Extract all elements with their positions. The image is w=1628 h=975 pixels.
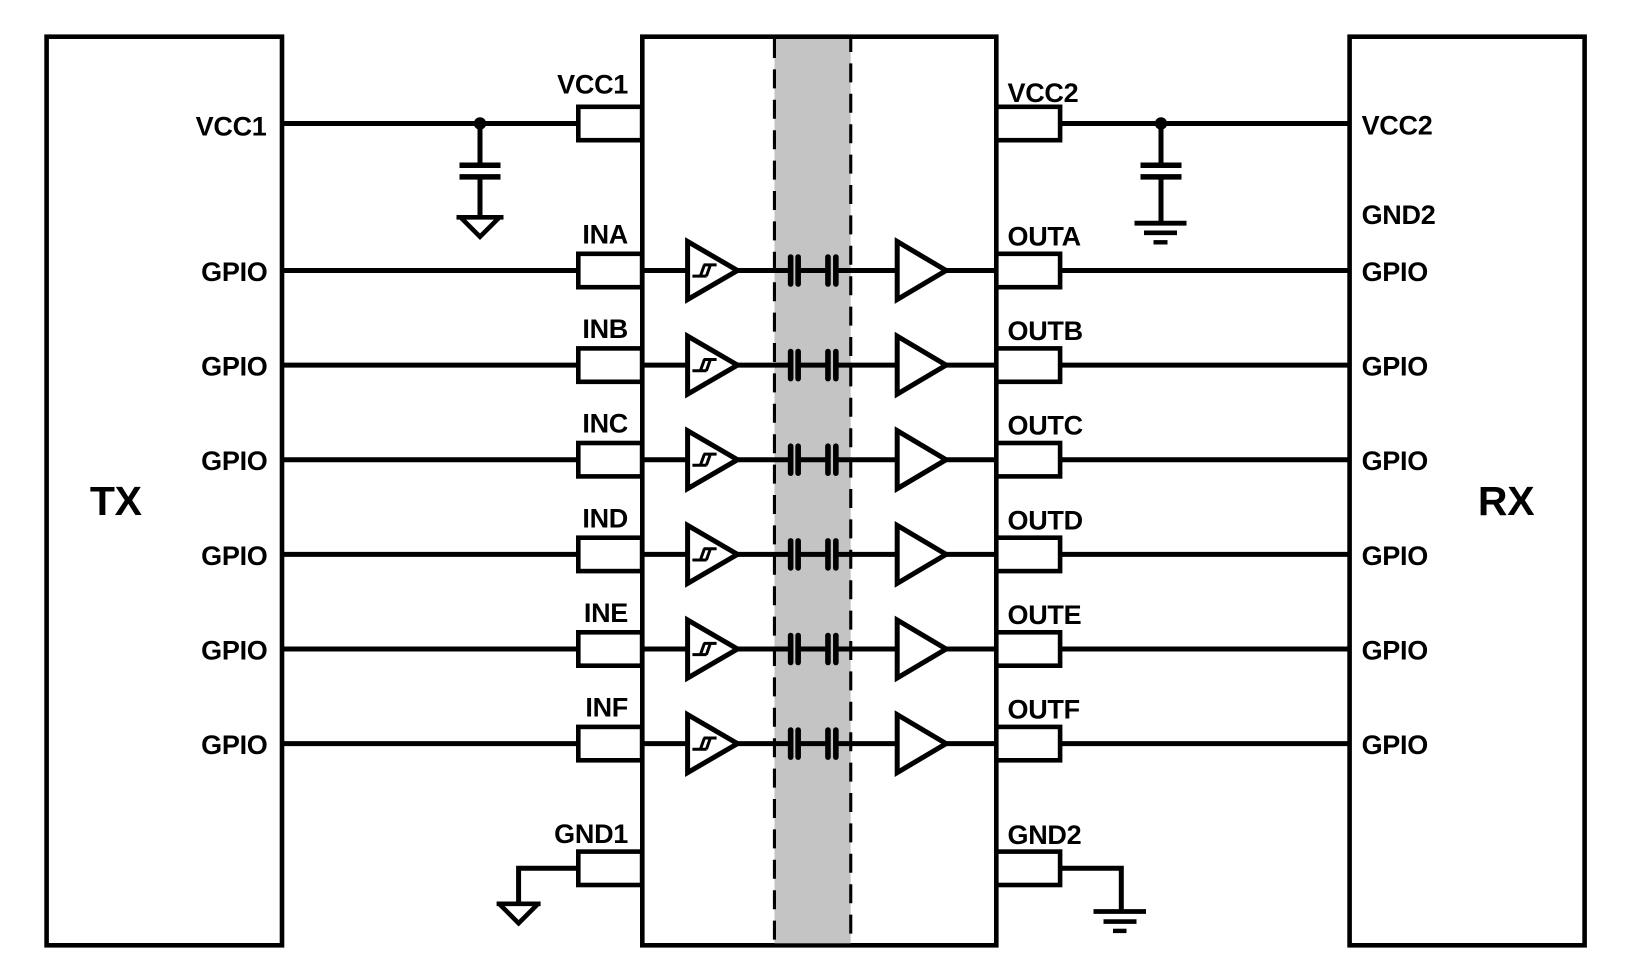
svg-text:OUTD: OUTD: [1008, 505, 1083, 535]
svg-text:OUTA: OUTA: [1008, 222, 1081, 252]
svg-text:GPIO: GPIO: [201, 541, 267, 571]
svg-text:INB: INB: [582, 314, 628, 344]
svg-text:GPIO: GPIO: [1362, 541, 1428, 571]
svg-text:VCC2: VCC2: [1008, 78, 1079, 108]
svg-text:GPIO: GPIO: [201, 446, 267, 476]
svg-text:IND: IND: [582, 503, 628, 533]
svg-text:GPIO: GPIO: [201, 257, 267, 287]
svg-text:GPIO: GPIO: [1362, 730, 1428, 760]
svg-text:TX: TX: [90, 478, 142, 524]
svg-text:GPIO: GPIO: [201, 635, 267, 665]
svg-text:GPIO: GPIO: [1362, 446, 1428, 476]
svg-text:GPIO: GPIO: [1362, 257, 1428, 287]
svg-text:GND2: GND2: [1362, 200, 1436, 230]
svg-text:GND2: GND2: [1008, 820, 1082, 850]
svg-text:GND1: GND1: [554, 819, 628, 849]
svg-text:OUTC: OUTC: [1008, 411, 1083, 441]
svg-text:INC: INC: [582, 409, 628, 439]
svg-text:INF: INF: [585, 693, 628, 723]
svg-text:OUTF: OUTF: [1008, 695, 1080, 725]
svg-text:VCC1: VCC1: [196, 112, 267, 142]
svg-text:INA: INA: [582, 220, 628, 250]
svg-text:OUTB: OUTB: [1008, 316, 1083, 346]
svg-text:GPIO: GPIO: [201, 730, 267, 760]
svg-text:GPIO: GPIO: [1362, 352, 1428, 382]
svg-text:GPIO: GPIO: [1362, 635, 1428, 665]
svg-text:VCC1: VCC1: [557, 70, 628, 100]
svg-text:VCC2: VCC2: [1362, 111, 1433, 141]
svg-text:OUTE: OUTE: [1008, 600, 1082, 630]
svg-text:RX: RX: [1478, 478, 1534, 524]
svg-text:GPIO: GPIO: [201, 352, 267, 382]
svg-text:INE: INE: [584, 598, 628, 628]
